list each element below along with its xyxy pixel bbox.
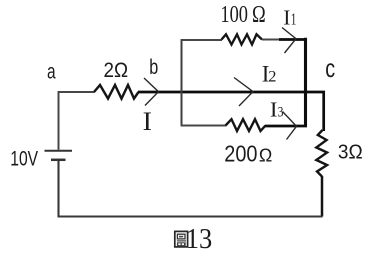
battery V1 short plate (51, 159, 66, 162)
current arrow I2 (234, 78, 253, 107)
wire: bottom branch left (181, 125, 226, 127)
wire: top branch right (262, 39, 280, 41)
wire: top branch left (181, 39, 222, 41)
svg-text:200: 200 (224, 140, 257, 166)
svg-text:Ω: Ω (252, 2, 266, 28)
right junction bar (304, 38, 307, 127)
resistor 3 ohm zigzag (vertical) (316, 130, 327, 177)
svg-text:Ω: Ω (259, 145, 272, 165)
svg-text:a: a (47, 61, 56, 84)
caption glyph (figure) (175, 231, 188, 247)
svg-text:2Ω: 2Ω (104, 59, 129, 82)
left junction bar (181, 40, 183, 126)
svg-text:I: I (270, 98, 278, 122)
resistor R 2ohm zigzag (94, 85, 139, 99)
svg-text:13: 13 (186, 223, 213, 255)
bottom return wire (59, 161, 323, 217)
wire a to 2-ohm resistor (59, 92, 95, 150)
battery V1 long plate (45, 150, 73, 152)
wire: top branch thick segment (279, 38, 307, 41)
svg-text:10V: 10V (10, 146, 38, 170)
svg-text:3: 3 (278, 105, 284, 121)
svg-text:3Ω: 3Ω (338, 141, 363, 164)
svg-text:2: 2 (268, 68, 276, 85)
current arrow I1 (282, 28, 296, 54)
svg-text:I: I (283, 6, 290, 30)
resistor 200 ohm zigzag (226, 119, 266, 131)
svg-text:1: 1 (291, 10, 297, 29)
wire: bottom branch thick segment (265, 125, 307, 128)
current arrow I3 (283, 112, 297, 140)
svg-text:I: I (143, 107, 152, 136)
wire: main middle conductor b to c (138, 92, 324, 131)
wire: 3 ohm to bottom (321, 176, 324, 217)
resistor 100 ohm zigzag (222, 34, 263, 44)
current arrow I (144, 78, 159, 106)
svg-text:100: 100 (220, 2, 248, 28)
svg-text:c: c (325, 53, 335, 83)
svg-text:b: b (149, 56, 158, 79)
